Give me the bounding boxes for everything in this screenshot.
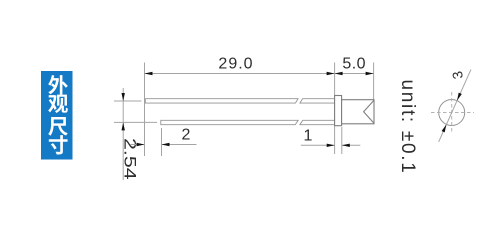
arrow dim2 right (points left) xyxy=(162,143,170,146)
extension line flange right edge lower xyxy=(341,127,343,154)
arrow dim1 right (points left) xyxy=(342,144,350,147)
body chamfer notch xyxy=(364,100,374,123)
arrow dim2 (points right) xyxy=(137,143,145,146)
extension line left (29.0 dim / lead end) xyxy=(144,63,146,157)
extension line at body right edge xyxy=(373,63,375,100)
arrow diameter top (points down-left into circle) xyxy=(457,93,462,101)
arrow 2.54 top xyxy=(122,93,125,101)
svg-text:unit: ±0.1: unit: ±0.1 xyxy=(397,79,418,174)
body flange xyxy=(335,96,342,126)
dim 1 left tail xyxy=(301,144,335,146)
label char 寸 xyxy=(49,135,68,154)
dim 1 right tail xyxy=(342,144,361,146)
lead pin2 right piece xyxy=(300,99,335,103)
blue title label 外观尺寸 xyxy=(41,71,73,160)
arrow 5.0 right xyxy=(366,72,374,75)
end-view circle xyxy=(439,100,465,126)
svg-text:29.0: 29.0 xyxy=(218,56,253,73)
centerline vertical xyxy=(451,92,453,133)
extension line pin1 center xyxy=(114,121,157,123)
extension line at flange left edge xyxy=(334,63,336,155)
dimension line 5.0 xyxy=(335,73,374,75)
arrow 2.54 bottom xyxy=(122,122,125,130)
dim line 2.54 vertical xyxy=(122,88,124,180)
arrow 29.0 right xyxy=(327,72,335,75)
extension line pin2 center xyxy=(114,100,142,102)
centerline horizontal xyxy=(431,112,474,114)
label char 尺 xyxy=(48,117,68,136)
svg-text:1: 1 xyxy=(304,128,313,145)
diameter dim line diagonal xyxy=(439,70,471,142)
lead pin2 left piece xyxy=(145,99,298,103)
svg-text:5.0: 5.0 xyxy=(342,56,366,73)
dim 2 left tail xyxy=(131,144,145,146)
label char 外 xyxy=(48,75,68,94)
arrow dim1 left (points right) xyxy=(327,144,335,147)
svg-text:2: 2 xyxy=(182,127,191,144)
arrow 29.0 left xyxy=(145,72,153,75)
lead pin1 right piece xyxy=(300,120,335,124)
label char 观 xyxy=(48,95,68,113)
arrow 5.0 left xyxy=(335,72,343,75)
dim 2 right tail xyxy=(162,144,197,146)
arrow diameter bottom (points up-right into circle) xyxy=(442,124,447,132)
lead pin1 left piece xyxy=(161,120,298,124)
extension line pin1 left end xyxy=(161,128,163,156)
body main xyxy=(342,100,374,124)
dimension line 29.0 xyxy=(145,73,335,75)
